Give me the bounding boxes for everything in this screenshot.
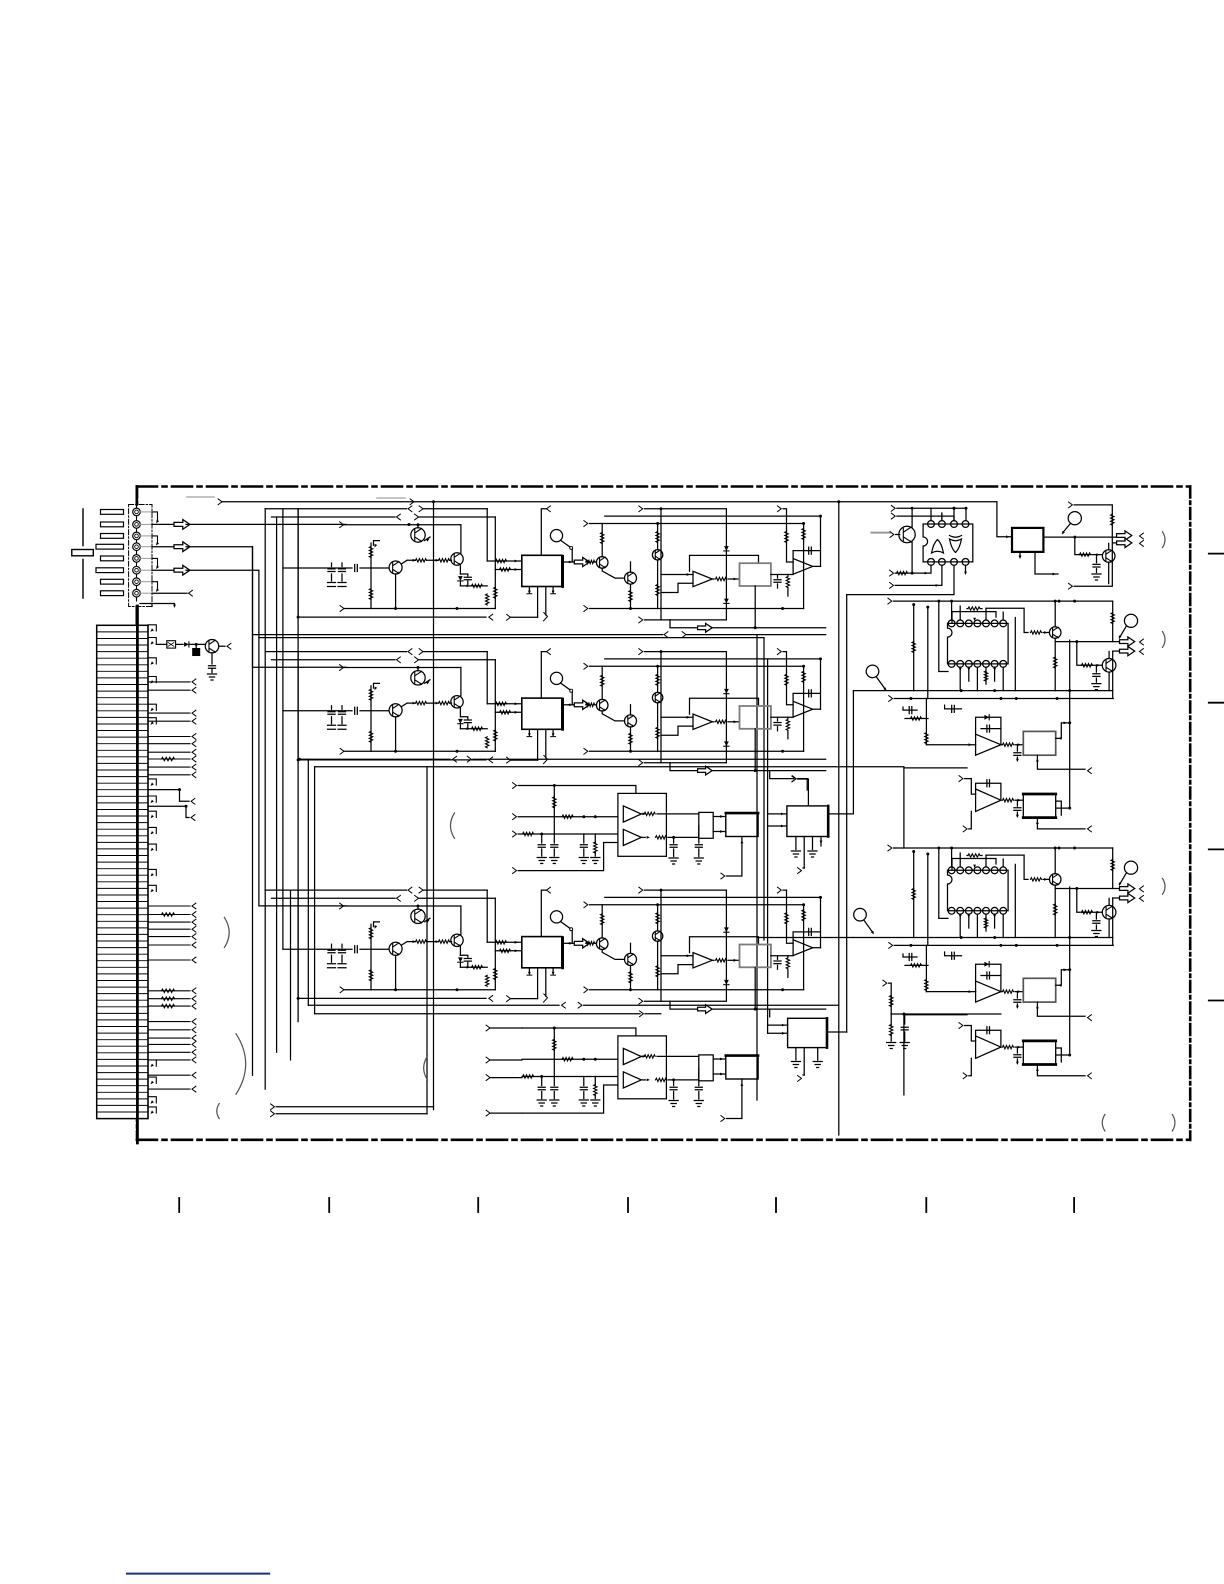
- connector stubs: [148, 625, 156, 1113]
- input routing V: [186, 570, 346, 906]
- bus verticals: [252, 547, 254, 1075]
- wire: [156, 643, 183, 645]
- border line through connector: [136, 606, 139, 1143]
- emitter ground: [211, 653, 213, 664]
- blockB left terminal: [883, 980, 887, 986]
- delay2 inputs: [768, 1024, 788, 1026]
- transistor Q-sync: [205, 640, 218, 653]
- delay1 bracket: [450, 813, 454, 838]
- left guide line: [82, 509, 84, 598]
- edge connector pin column: [147, 625, 149, 1118]
- wire pin8: [152, 592, 187, 594]
- connector stem: [136, 487, 139, 626]
- channel block row 3: [265, 887, 826, 1013]
- input arrows Y/C/V: [152, 523, 174, 525]
- inter-row lines: [253, 634, 663, 636]
- fold tick marks right: [1209, 553, 1224, 555]
- footer rule: [127, 1573, 269, 1575]
- blockB bus extension: [757, 937, 853, 939]
- page border right: [1189, 487, 1192, 1140]
- TR bracket: [1163, 532, 1166, 548]
- bias box: [193, 649, 200, 656]
- TR pin feeds: [912, 508, 966, 527]
- mid brackets: [224, 917, 229, 947]
- long mid line: [315, 766, 904, 768]
- delay1 output: [828, 813, 853, 815]
- TR gray lead: [872, 532, 890, 534]
- bottom-right parens: [1102, 1115, 1105, 1132]
- stem tap: [140, 604, 175, 606]
- row2 output drop: [770, 771, 794, 779]
- page border left: [136, 487, 139, 1140]
- blockB divider: [890, 1014, 892, 1026]
- connector breakout wires: [148, 682, 190, 1089]
- delay line block 1: [513, 783, 759, 879]
- coax connector pads: [101, 510, 124, 515]
- fold tick marks bottom: [178, 1198, 180, 1212]
- test point circle block A: [866, 665, 879, 678]
- TR output arrows: [1117, 531, 1132, 540]
- page border top: [137, 485, 1190, 488]
- mid verticals: [426, 767, 428, 1114]
- bottom-left wires: [217, 1104, 219, 1119]
- page border bottom: [137, 1139, 1190, 1142]
- delay2 input stubs: [511, 1024, 522, 1033]
- right section block A: [853, 598, 1165, 848]
- control box U-TRB: [1012, 528, 1043, 552]
- delay1 main IC box: [787, 806, 828, 837]
- TR input lines: [891, 505, 895, 511]
- crystal box X1: [167, 641, 176, 648]
- OR gate: [932, 540, 944, 554]
- channel block row 2 (chroma): [265, 649, 826, 775]
- TR output line: [1043, 536, 1116, 538]
- delay2 output: [827, 1031, 847, 1033]
- U-TR pin wires: [942, 508, 954, 520]
- input routing C: [186, 547, 346, 668]
- row3 feed line: [308, 1004, 559, 1006]
- row2 bottom rail extension: [299, 758, 450, 760]
- delay2 bracket: [424, 1056, 428, 1080]
- test point circle block B: [854, 908, 867, 921]
- delay2 bottom pins: [796, 1048, 818, 1075]
- row3 lower line: [315, 1013, 640, 1015]
- coax connector CN-top outline: [129, 505, 152, 607]
- top feed line: [187, 497, 405, 498]
- transistor QTR2: [1102, 550, 1115, 563]
- TR bias loop: [1069, 502, 1073, 508]
- jog wires: [148, 790, 189, 802]
- edge connector rows: [97, 632, 148, 1112]
- row3 output drop: [769, 1009, 771, 1017]
- input routing Y: [186, 523, 346, 525]
- edge connector CN-main body: [97, 625, 148, 1118]
- hybrid IC U-TR: [923, 524, 973, 562]
- delay2 main IC box: [788, 1018, 827, 1047]
- pin pair jogs: [152, 512, 158, 521]
- delay1 top lead: [792, 776, 796, 782]
- blockB left rail: [891, 1013, 1001, 1015]
- transistor QTR: [899, 526, 915, 542]
- left guide bar: [72, 550, 94, 556]
- pot circle TR: [1068, 512, 1081, 525]
- channel block row 1 (luminance): [265, 506, 826, 632]
- XOR gate: [950, 539, 962, 553]
- diode D1: [184, 642, 189, 647]
- delay1 bottom pins: [796, 837, 821, 869]
- output terminal: [219, 645, 225, 647]
- delay1 inputs: [768, 813, 787, 815]
- wire: [190, 643, 205, 645]
- right section block B: [853, 845, 1165, 1095]
- delay line block 2: [513, 1025, 759, 1121]
- coax pins: [133, 508, 141, 516]
- coax pin chain: [136, 496, 138, 601]
